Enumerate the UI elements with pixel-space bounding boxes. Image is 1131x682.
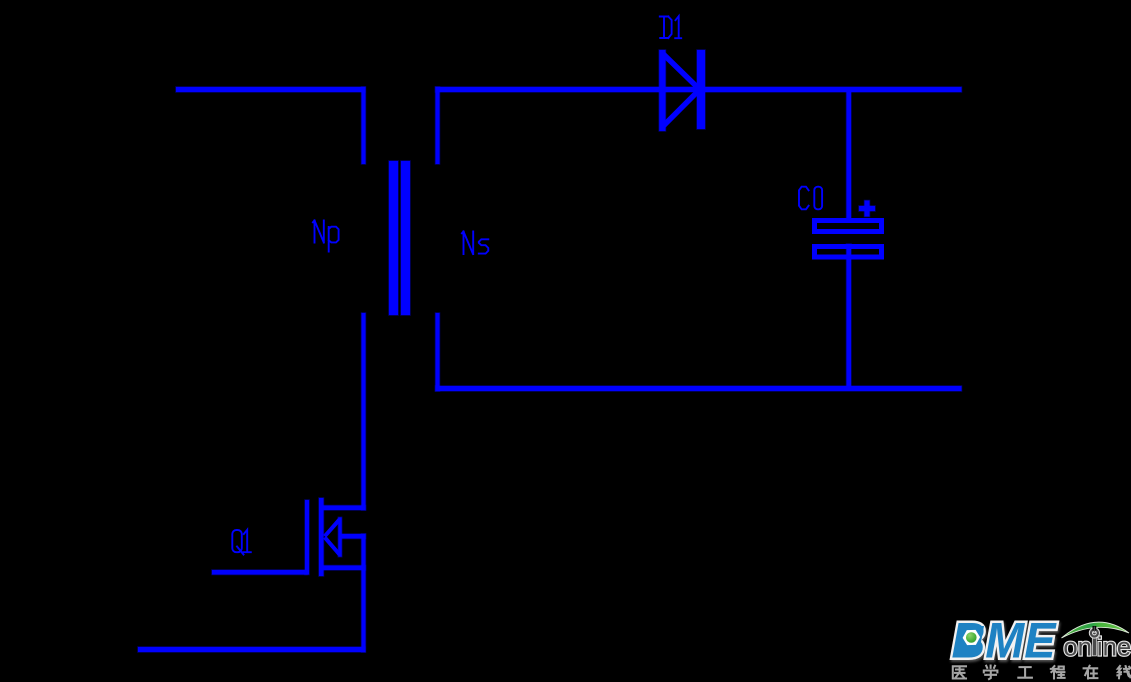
label Q1: [232, 530, 251, 555]
logo wrench forming the l: [1091, 626, 1098, 656]
capacitor C0 top lead: [847, 92, 852, 218]
capacitor polarity plus sign: [859, 201, 875, 217]
logo Chinese characters 医学工程在线: [953, 666, 1131, 680]
mosfet Q1 body arrow: [325, 517, 342, 556]
logo online text: on: [1063, 634, 1131, 662]
mosfet Q1 body stub: [340, 534, 366, 539]
char 在: [1084, 666, 1098, 679]
char 学: [984, 666, 998, 680]
logo hexagon with green ball on B: [959, 626, 985, 653]
mosfet Q1 gate bar: [305, 500, 309, 575]
label Np: [313, 221, 339, 252]
svg-text:on: on: [1063, 634, 1092, 662]
transformer T1 secondary winding (lower lead): [436, 313, 440, 391]
transformer T1 primary winding (lower lead): [362, 313, 366, 510]
diode D1 cathode bar: [697, 50, 705, 129]
capacitor C0 bottom plate: [815, 247, 882, 258]
wire secondary top (through diode): [436, 87, 962, 92]
label C0: [799, 187, 822, 210]
mosfet Q1 source vertical wire to bottom rail: [362, 534, 366, 652]
capacitor C0 top plate: [815, 221, 882, 232]
svg-text:ine: ine: [1097, 634, 1131, 662]
diode D1 triangle (anode): [659, 50, 699, 131]
mosfet Q1 source stub: [321, 566, 366, 571]
transformer T1 primary winding (upper lead): [362, 87, 366, 164]
char 工: [1018, 667, 1032, 678]
label Ns: [462, 232, 488, 255]
transformer T1 core bar right: [401, 161, 410, 315]
char 线: [1117, 666, 1130, 678]
transformer T1 secondary winding (upper lead): [436, 87, 440, 164]
wire top-left input: [176, 87, 365, 92]
logo green arc swoosh: [1062, 622, 1130, 638]
wire secondary bottom: [436, 386, 962, 391]
char 医: [953, 666, 966, 678]
transformer T1 core bar left: [389, 161, 398, 315]
wire bottom-left input: [138, 647, 365, 652]
mosfet Q1 channel bar: [319, 498, 324, 576]
mosfet Q1 gate lead wire: [212, 570, 307, 575]
logo BME wordmark: [952, 612, 1058, 671]
char 程: [1051, 666, 1065, 678]
mosfet Q1 drain stub: [321, 506, 366, 511]
label D1: [660, 16, 681, 38]
capacitor C0 bottom lead: [847, 244, 852, 388]
